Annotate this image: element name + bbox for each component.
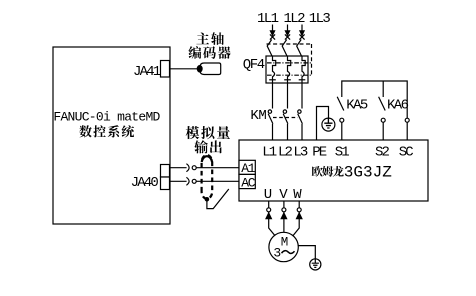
svg-text:L3: L3 bbox=[293, 145, 308, 161]
KM contact 1 bbox=[268, 110, 271, 113]
svg-text:PE: PE bbox=[312, 145, 327, 161]
wire JA40 pin1 to A1 bbox=[170, 167, 187, 169]
control bus top wire bbox=[342, 81, 407, 118]
motor lead V bbox=[283, 201, 285, 208]
wire QF4 to KM pole 2 bbox=[287, 83, 289, 109]
connector JA40 (two cells) bbox=[161, 165, 170, 178]
svg-text:3: 3 bbox=[273, 246, 281, 261]
label 输出 bbox=[194, 140, 208, 153]
wire QF4 to KM pole 1 bbox=[272, 83, 274, 109]
KM contact 3 bbox=[298, 110, 301, 113]
breaker QF4 box bbox=[266, 56, 308, 83]
breaker blade 2 bbox=[282, 40, 287, 57]
PE wire and earth bbox=[317, 107, 329, 141]
svg-text:M: M bbox=[281, 236, 289, 250]
tilde bbox=[282, 251, 295, 254]
breaker blade 3 bbox=[297, 40, 302, 57]
motor lead U bbox=[268, 201, 270, 208]
breaker blade 1 bbox=[267, 40, 272, 57]
wire phase 1 drop with arrow bbox=[272, 25, 274, 34]
lead routing to motor bbox=[269, 219, 300, 238]
svg-text:A1: A1 bbox=[241, 161, 256, 176]
svg-text:QF4: QF4 bbox=[243, 57, 265, 73]
spindle encoder symbol bbox=[200, 63, 221, 75]
svg-text:S1: S1 bbox=[335, 145, 350, 161]
plug symbol pin1 bbox=[186, 164, 189, 172]
QF4 pole 2 elements bbox=[288, 56, 291, 83]
KM linkage dashed bbox=[273, 117, 298, 119]
relay contact KA5 bbox=[337, 97, 344, 111]
CNC unit FANUC box bbox=[53, 47, 170, 224]
label 编码器 bbox=[188, 46, 201, 59]
svg-text:SC: SC bbox=[399, 145, 414, 161]
svg-text:V: V bbox=[279, 187, 288, 203]
wire JA40 pin2 to AC bbox=[170, 180, 187, 182]
label 主轴 bbox=[196, 32, 209, 44]
svg-text:JA40: JA40 bbox=[131, 175, 159, 191]
label 模拟量 bbox=[186, 126, 200, 139]
breaker contact X mark 3 bbox=[299, 34, 304, 39]
svg-text:KM: KM bbox=[250, 108, 266, 124]
connector JA41 bbox=[161, 61, 170, 78]
QF4 pole 1 elements bbox=[273, 56, 276, 83]
svg-text:KA5: KA5 bbox=[346, 98, 368, 114]
SC terminal circle bbox=[405, 118, 409, 122]
svg-text:L1: L1 bbox=[262, 145, 277, 161]
motor lead W bbox=[298, 201, 300, 208]
motor earth wire bbox=[298, 246, 315, 259]
QF4 linkage dashed bbox=[267, 44, 312, 76]
motor M circle bbox=[269, 232, 298, 261]
wire KM to inverter L3 bbox=[301, 124, 303, 140]
shield ground tail bbox=[207, 189, 229, 209]
terminal AC box bbox=[239, 174, 255, 188]
label 欧姆龙 bbox=[312, 166, 323, 177]
terminal A1 box bbox=[239, 160, 255, 174]
wire JA41 to encoder bbox=[170, 68, 198, 70]
shielded cable capsule bbox=[202, 155, 213, 199]
svg-text:JA41: JA41 bbox=[133, 64, 161, 80]
shield top arc bbox=[202, 156, 212, 162]
label 数控系统 bbox=[79, 125, 91, 137]
shield dot bbox=[205, 197, 210, 202]
svg-text:U: U bbox=[264, 187, 272, 203]
breaker contact X mark 2 bbox=[285, 34, 290, 39]
svg-text:1L3: 1L3 bbox=[309, 11, 331, 27]
wire phase 3 drop with arrow bbox=[301, 25, 303, 34]
svg-text:W: W bbox=[293, 187, 302, 203]
earth circle motor bbox=[310, 259, 321, 270]
KM contact 2 bbox=[283, 110, 286, 113]
wire KM to inverter L1 bbox=[272, 124, 274, 140]
relay contact KA6 bbox=[379, 97, 386, 111]
inverter OMRON box bbox=[239, 140, 428, 201]
wire KM to inverter L2 bbox=[287, 124, 289, 140]
svg-text:FANUC-0i mateMD: FANUC-0i mateMD bbox=[53, 110, 160, 125]
svg-text:S2: S2 bbox=[375, 145, 390, 161]
QF4 pole 3 elements bbox=[302, 56, 305, 83]
svg-text:AC: AC bbox=[241, 175, 256, 190]
plug symbol pin2 bbox=[186, 177, 189, 185]
svg-text:3G3JZ: 3G3JZ bbox=[344, 163, 392, 181]
svg-text:KA6: KA6 bbox=[387, 98, 409, 114]
breaker contact X mark 1 bbox=[270, 34, 275, 39]
earth circle PE bbox=[322, 118, 335, 131]
svg-text:L2: L2 bbox=[278, 145, 293, 161]
svg-text:1L1: 1L1 bbox=[257, 11, 279, 27]
wire phase 2 drop with arrow bbox=[287, 25, 289, 34]
wire QF4 to KM pole 3 bbox=[301, 83, 303, 109]
QF4 trip dash-dot lines bbox=[267, 63, 312, 75]
